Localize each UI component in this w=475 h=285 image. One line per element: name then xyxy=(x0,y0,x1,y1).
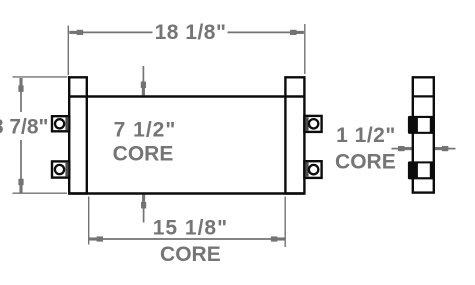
svg-text:CORE: CORE xyxy=(335,151,396,174)
svg-text:7 1/2": 7 1/2" xyxy=(114,118,177,141)
svg-text:8 7/8": 8 7/8" xyxy=(0,116,49,139)
svg-text:CORE: CORE xyxy=(113,142,174,165)
svg-text:1 1/2": 1 1/2" xyxy=(336,124,396,147)
svg-text:CORE: CORE xyxy=(160,243,221,266)
svg-text:15 1/8": 15 1/8" xyxy=(153,216,228,239)
svg-text:18 1/8": 18 1/8" xyxy=(155,21,227,44)
